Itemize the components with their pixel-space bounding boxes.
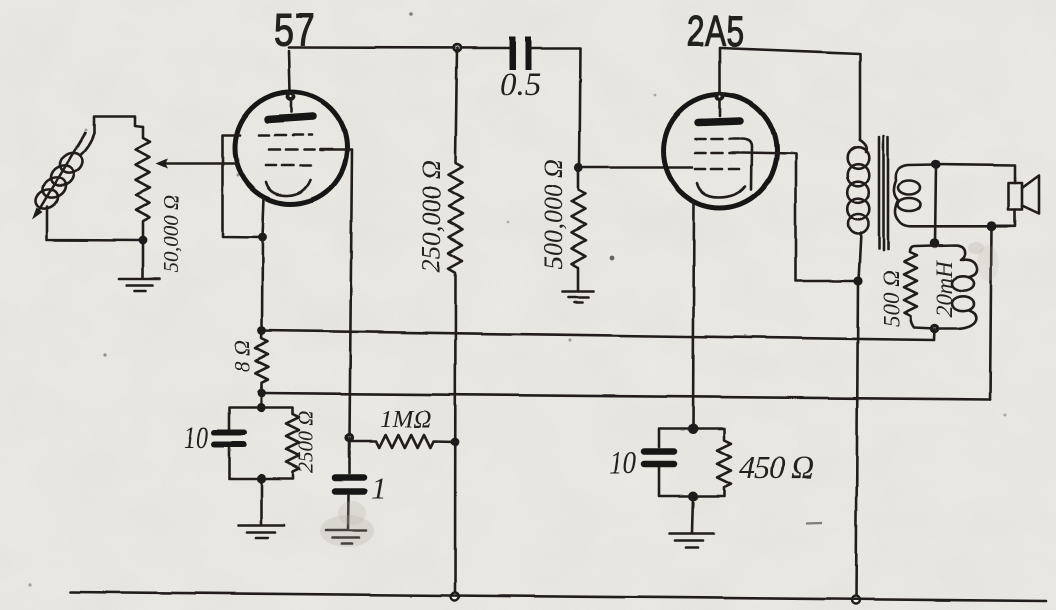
wire 2A5 cathode lead xyxy=(693,201,694,428)
node pot bottom junction xyxy=(139,236,148,245)
cathode arc 57 xyxy=(266,180,310,196)
node junction top wire / 250k xyxy=(452,43,462,53)
node 1M ohm left junction xyxy=(345,433,354,442)
wire speaker bottom / secondary bottom xyxy=(912,210,1015,226)
capacitor C4 plates xyxy=(644,448,674,455)
grid side bracket 57 xyxy=(223,135,263,237)
antenna coil L1 loops xyxy=(32,149,86,213)
capacitor C2 10uF left branch xyxy=(229,408,261,479)
cathode arc 2A5 xyxy=(697,183,745,197)
wire RC1 to ground xyxy=(260,479,263,525)
plate bar 2A5 xyxy=(698,121,740,123)
capacitor C1 0.5 plate right xyxy=(526,37,532,70)
node 1M ohm right junction xyxy=(451,438,460,447)
grid row 2 (57) xyxy=(269,148,332,151)
capacitor C4 10uF left branch xyxy=(659,429,693,497)
wire plate exit 2A5 xyxy=(741,153,858,281)
svg-text:500 Ω: 500 Ω xyxy=(879,270,904,327)
transformer T1 core xyxy=(879,136,888,250)
ground G4 xyxy=(326,529,366,532)
node primary bottom junction xyxy=(853,276,862,285)
capacitor C2 plates xyxy=(214,430,244,436)
grid row 3 (57) xyxy=(266,164,310,167)
wire 2A5 cap to transformer primary xyxy=(720,48,860,140)
svg-text:1: 1 xyxy=(371,472,386,505)
plate stem 57 xyxy=(290,101,293,112)
node bottom rail right xyxy=(852,596,860,604)
wire secondary junction down to choke xyxy=(935,165,936,244)
wire 2A5 top-cap lead xyxy=(719,48,722,92)
node secondary top junction xyxy=(931,160,941,170)
wire 57 cathode down xyxy=(262,198,264,331)
arrowhead of coil axis xyxy=(32,208,43,220)
top cap terminal 57 xyxy=(286,92,296,102)
speaker LS1 coil xyxy=(1009,183,1023,210)
resistor R5 8 ohm xyxy=(255,331,268,394)
transformer T1 primary winding xyxy=(848,140,870,281)
node line B junction xyxy=(257,389,266,398)
top cap terminal 2A5 xyxy=(715,92,725,102)
plate stem 2A5 xyxy=(719,101,722,116)
plate bar 57 xyxy=(268,117,313,120)
capacitor C1 0.5 plate left xyxy=(510,37,517,70)
wire to capacitor 1 xyxy=(348,438,351,473)
wire 8ohm to RC xyxy=(260,387,263,408)
screen exit wire 57 right xyxy=(320,150,352,438)
tube U2 2A5 envelope xyxy=(664,95,777,208)
screen bracket 2A5 xyxy=(741,139,752,189)
resistor R2 250000 ohm xyxy=(449,48,463,596)
wiper wire to pot with arrow xyxy=(166,162,237,165)
wire bias line A to 57 cathode xyxy=(262,331,934,341)
svg-text:50,000 Ω: 50,000 Ω xyxy=(159,195,183,273)
node RC1 top xyxy=(256,403,265,412)
wire 57 top-cap lead xyxy=(289,51,290,92)
wire choke bottom stub xyxy=(933,329,936,341)
grid row 3 (2A5) xyxy=(695,168,739,171)
bottom supply rail xyxy=(70,592,1046,601)
ground G1 under pot xyxy=(119,278,160,281)
svg-text:10: 10 xyxy=(184,419,208,455)
svg-text:500,000 Ω: 500,000 Ω xyxy=(539,159,568,269)
variable arrow axis through coil xyxy=(38,133,85,212)
svg-text:20mH: 20mH xyxy=(932,259,957,317)
choke L2 20mH loops xyxy=(935,245,978,329)
svg-text:1MΩ: 1MΩ xyxy=(380,406,431,433)
svg-text:0.5: 0.5 xyxy=(500,67,541,103)
wire primary-bottom to bottom rail xyxy=(856,281,858,600)
antenna coil top wire xyxy=(94,117,143,134)
svg-text:10: 10 xyxy=(609,445,636,481)
wire speaker top xyxy=(936,165,1015,184)
node choke bottom xyxy=(930,324,940,334)
wire top plate wire to coupling cap xyxy=(289,46,509,49)
node speaker bottom junction xyxy=(987,222,997,232)
node RC2 bottom xyxy=(688,492,698,502)
antenna coil leads xyxy=(47,133,143,241)
node choke top xyxy=(930,238,940,248)
arrowhead on wiper wire xyxy=(156,159,168,169)
node 57 cathode junction xyxy=(258,233,267,242)
grid row 1 (57) xyxy=(259,134,312,137)
node RC1 bottom xyxy=(256,474,265,483)
grid row 2 (2A5) xyxy=(695,152,739,155)
svg-text:250,000 Ω: 250,000 Ω xyxy=(416,160,446,272)
svg-text:450 Ω: 450 Ω xyxy=(739,449,813,485)
resistor R3 500000 ohm xyxy=(572,168,586,290)
transformer T1 secondary winding xyxy=(894,165,936,227)
ground G5 xyxy=(669,532,714,535)
wire grid of 2A5 xyxy=(579,166,693,169)
node line A junction xyxy=(258,326,267,335)
ground G2 under 500k xyxy=(563,290,594,293)
capacitor C3 1uF plates xyxy=(335,474,364,481)
potentiometer R1 50000 ohm body xyxy=(136,127,150,279)
grid row 1 (2A5) xyxy=(695,138,739,141)
wire cap 1 to ground xyxy=(347,495,350,529)
resistor R6 2500 ohm right branch xyxy=(261,408,300,479)
node bottom rail left xyxy=(451,593,459,601)
ground G3 xyxy=(238,524,284,527)
resistor R4 500 ohm (in parallel blob) xyxy=(904,246,935,329)
svg-text:8 Ω: 8 Ω xyxy=(229,340,254,373)
wire junction down right side xyxy=(990,227,992,400)
node RC2 top (2A5 cathode) xyxy=(688,424,698,434)
node 500k / grid junction xyxy=(574,163,583,172)
resistor R7 1M ohm xyxy=(350,435,456,448)
svg-text:2500 Ω: 2500 Ω xyxy=(294,411,318,473)
wire RC2 to ground xyxy=(692,497,693,533)
wire coupling cap to 500k top xyxy=(531,49,580,169)
wire line B speaker return xyxy=(262,393,990,400)
resistor R8 450 ohm right branch xyxy=(693,429,731,497)
tube U1 57 envelope xyxy=(235,92,347,204)
speaker LS1 horn xyxy=(1022,176,1039,215)
